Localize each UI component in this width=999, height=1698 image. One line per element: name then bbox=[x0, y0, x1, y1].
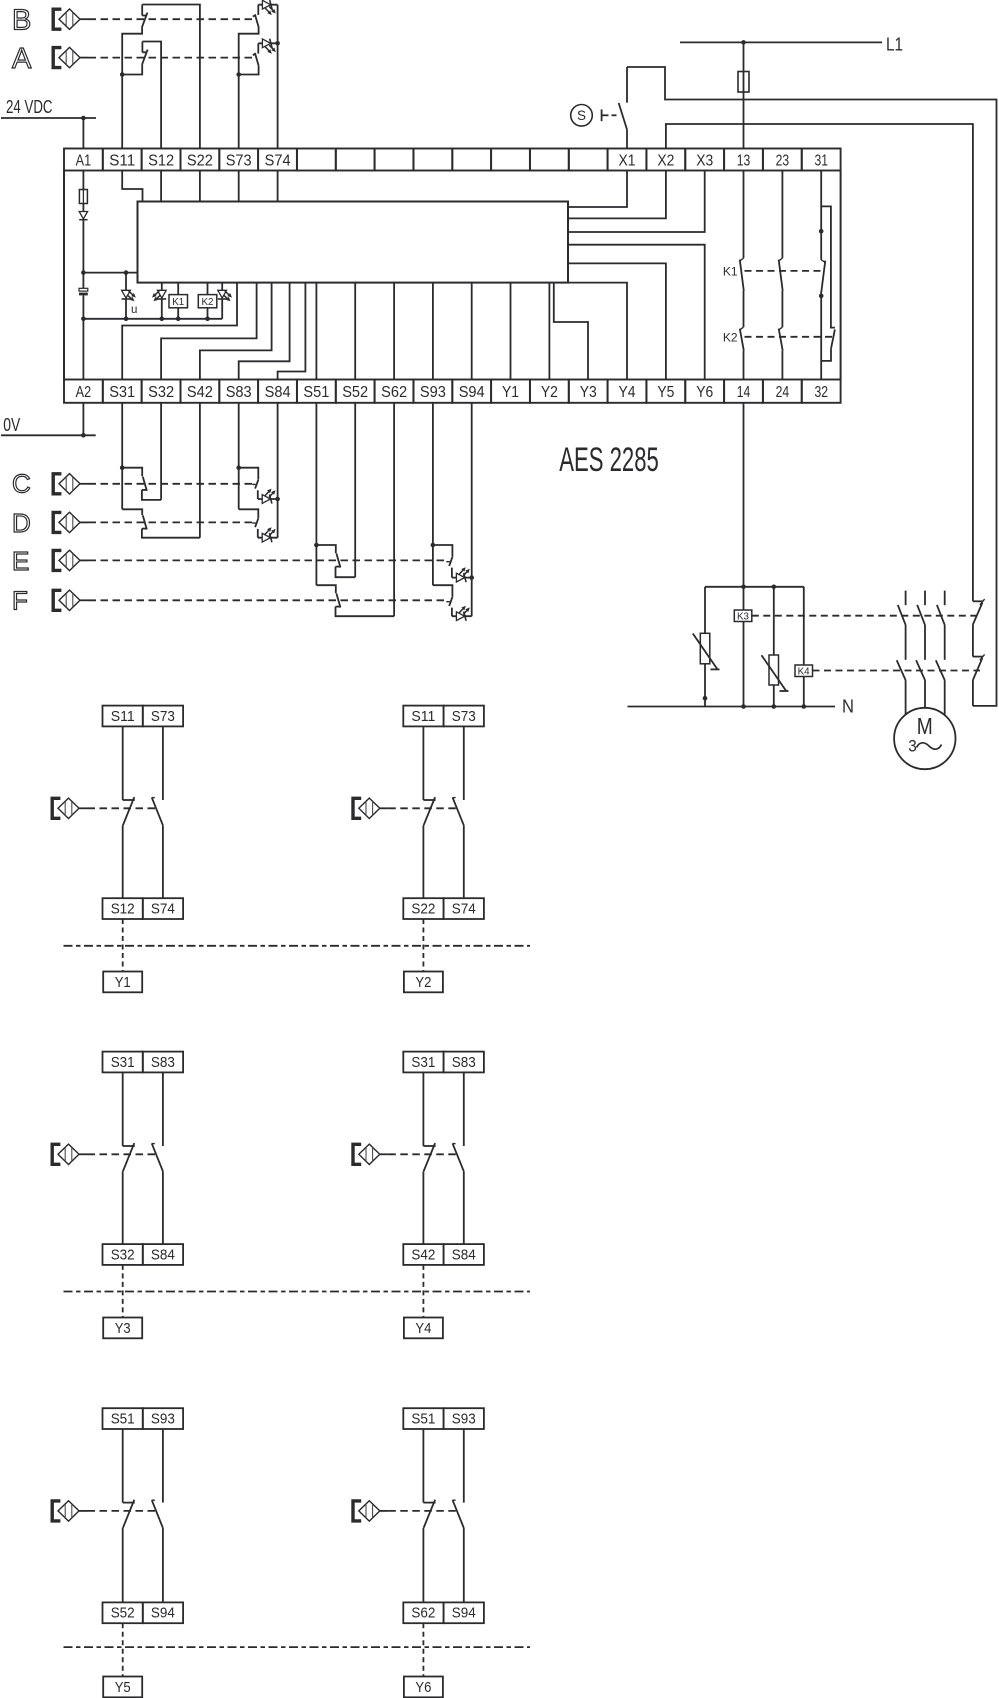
node S84-C bbox=[275, 497, 280, 502]
contact E1 (NC) bbox=[316, 545, 341, 568]
node S74 junction bbox=[275, 41, 280, 46]
section divider 3 (dash-dot) bbox=[64, 1646, 531, 1648]
terminal pair S51/S93 (Y6) bbox=[403, 1408, 484, 1429]
svg-text:S51: S51 bbox=[303, 384, 329, 401]
wire 0V rail bbox=[1, 434, 96, 436]
node 31 upper bbox=[819, 229, 824, 234]
contact left NC (Y3) bbox=[123, 1143, 135, 1171]
svg-text:S73: S73 bbox=[151, 708, 175, 725]
mechanical link F (dashed) bbox=[89, 599, 449, 601]
proximity sensor (Y3) bbox=[52, 1144, 87, 1164]
svg-text:S93: S93 bbox=[452, 1411, 476, 1428]
terminal Y2 bbox=[541, 384, 558, 401]
svg-text:24 VDC: 24 VDC bbox=[6, 96, 53, 117]
mechanical link D (dashed) bbox=[89, 521, 253, 523]
wire D1 to S42 bbox=[142, 529, 200, 538]
wire S83 down bbox=[238, 403, 240, 510]
wire S31 down (Y4) bbox=[422, 1072, 424, 1146]
wire B LED to S74 bbox=[258, 4, 277, 6]
terminal S62 bbox=[381, 384, 407, 401]
svg-text:A: A bbox=[12, 43, 32, 75]
svg-text:S22: S22 bbox=[411, 901, 435, 918]
node N-K4 bbox=[802, 704, 807, 709]
svg-text:S11: S11 bbox=[111, 708, 135, 725]
svg-text:S74: S74 bbox=[265, 152, 291, 169]
contact E2 (NO) bbox=[433, 545, 453, 566]
wire phase L2 mid bbox=[924, 625, 926, 660]
internal bus lower bbox=[83, 318, 222, 320]
sensor label A bbox=[12, 43, 32, 75]
terminal S32 bbox=[148, 384, 174, 401]
wire to S62 (Y6) bbox=[422, 1528, 424, 1603]
svg-text:S73: S73 bbox=[226, 152, 252, 169]
svg-text:S31: S31 bbox=[411, 1054, 435, 1071]
proximity sensor (Y2) bbox=[353, 798, 388, 818]
pushbutton S circle bbox=[571, 105, 593, 127]
wire S11 to logic bbox=[122, 171, 142, 202]
wire logic to S94 bbox=[471, 283, 473, 380]
wire A1 bottom to S11 bbox=[122, 64, 142, 74]
wire S84 down bbox=[277, 403, 279, 538]
wire X3 to logic bbox=[568, 171, 705, 233]
terminal 14 bbox=[737, 384, 751, 401]
proximity sensor (Y1) bbox=[52, 798, 87, 818]
wire S31 down (Y3) bbox=[122, 1072, 124, 1146]
contact left NC (Y4) bbox=[423, 1143, 435, 1171]
wire to S84 (Y3) bbox=[162, 1171, 164, 1244]
svg-text:23: 23 bbox=[776, 152, 790, 169]
node bus2-LED2 bbox=[160, 317, 165, 322]
wire S73 down (Y1) bbox=[162, 726, 164, 800]
terminal pair S42/S84 (Y4) bbox=[403, 1244, 484, 1265]
terminal 23 bbox=[776, 152, 790, 169]
wire Y2 dashed drop bbox=[422, 919, 424, 972]
svg-text:K2: K2 bbox=[723, 330, 738, 344]
svg-text:F: F bbox=[12, 586, 28, 616]
wire E1 to S52 bbox=[336, 567, 356, 578]
wire to S32 (Y3) bbox=[122, 1171, 124, 1244]
terminal S73 bbox=[226, 152, 252, 169]
contact left NC (Y5) bbox=[123, 1500, 135, 1528]
contact right NO (Y2) bbox=[452, 798, 463, 826]
wire S62 down bbox=[393, 403, 395, 616]
contact right NO (Y4) bbox=[452, 1144, 463, 1172]
svg-text:K2: K2 bbox=[202, 296, 214, 308]
svg-text:Y2: Y2 bbox=[415, 974, 431, 991]
svg-text:Y3: Y3 bbox=[580, 384, 597, 401]
terminal pair S52/S94 (Y5) bbox=[103, 1602, 184, 1623]
terminal S84 bbox=[265, 384, 291, 401]
svg-text:Y6: Y6 bbox=[415, 1679, 431, 1696]
wire S11 down (Y2) bbox=[422, 726, 424, 800]
suppressor bus bbox=[705, 586, 804, 588]
LED 3 bbox=[218, 290, 232, 301]
proximity sensor A bbox=[53, 47, 88, 67]
node S51 junction bbox=[314, 543, 319, 548]
LED C bbox=[262, 489, 275, 504]
contact left NC (Y6) bbox=[423, 1500, 435, 1528]
svg-text:S94: S94 bbox=[459, 384, 485, 401]
contact K2b bbox=[779, 327, 783, 350]
mechanical link (Y5) dashed bbox=[88, 1510, 157, 1512]
sensor label F bbox=[12, 586, 28, 616]
terminal 31 bbox=[814, 152, 828, 169]
wire logic to Y1 bbox=[510, 283, 512, 380]
svg-text:N: N bbox=[842, 696, 854, 717]
svg-text:S11: S11 bbox=[411, 708, 435, 725]
wire diode-cap bbox=[82, 220, 84, 289]
svg-text:S62: S62 bbox=[381, 384, 407, 401]
wire S94 down bbox=[471, 403, 473, 616]
svg-text:S32: S32 bbox=[111, 1246, 135, 1263]
internal bus upper bbox=[83, 272, 137, 274]
label u bbox=[131, 304, 137, 316]
wire A top to S12 bbox=[142, 42, 161, 149]
wire logic to S62 bbox=[393, 283, 395, 380]
mechanical link (Y6) dashed bbox=[388, 1510, 457, 1512]
proximity sensor C bbox=[53, 474, 88, 494]
svg-text:Y5: Y5 bbox=[657, 384, 674, 401]
output box Y4 bbox=[404, 1318, 443, 1339]
svg-text:32: 32 bbox=[814, 384, 828, 401]
contact C2 (NO) bbox=[239, 468, 259, 489]
svg-text:24: 24 bbox=[776, 384, 790, 401]
node A1 bus2 bbox=[81, 317, 86, 322]
wire logic to S31 bbox=[122, 283, 237, 380]
svg-text:S84: S84 bbox=[265, 384, 291, 401]
wire to S52 (Y5) bbox=[122, 1528, 124, 1603]
LED 3 wire bbox=[221, 283, 223, 319]
contact A2 (NO) bbox=[253, 43, 259, 65]
fuse F2 bbox=[738, 42, 749, 148]
wire 13 down bbox=[743, 171, 745, 259]
node bus2-K1 bbox=[176, 317, 181, 322]
wire Y3 dashed drop bbox=[122, 1265, 124, 1318]
terminal 32 bbox=[814, 384, 828, 401]
terminal A1 bbox=[76, 152, 92, 169]
LED 2 bbox=[152, 290, 166, 301]
wire to S84 (Y4) bbox=[463, 1171, 465, 1244]
contact C1 (NC) bbox=[122, 468, 147, 491]
terminal S31 bbox=[109, 384, 135, 401]
pushbutton actuator bbox=[602, 109, 617, 121]
wire logic to Y3 bbox=[554, 283, 588, 380]
contact F2 (NO) bbox=[433, 585, 453, 606]
contact left NC (Y2) bbox=[423, 797, 435, 825]
node S83 junction bbox=[236, 465, 241, 470]
wire B top to S22 bbox=[142, 5, 200, 149]
wire Y6 dashed drop bbox=[422, 1623, 424, 1676]
wire F1 to S62 bbox=[336, 607, 395, 617]
proximity sensor F bbox=[53, 590, 88, 610]
wire to 24 bbox=[781, 351, 783, 380]
proximity sensor (Y4) bbox=[353, 1144, 388, 1164]
label 0V bbox=[3, 414, 20, 435]
terminal S93 bbox=[420, 384, 446, 401]
svg-text:K1: K1 bbox=[172, 296, 184, 308]
wire S93 down (Y6) bbox=[463, 1429, 465, 1503]
terminal Y1 bbox=[502, 384, 519, 401]
svg-text:S83: S83 bbox=[151, 1054, 175, 1071]
terminal A2 bbox=[76, 384, 92, 401]
sensor label B bbox=[12, 5, 31, 37]
svg-text:K1: K1 bbox=[723, 265, 738, 279]
feedback loop outer bbox=[627, 67, 997, 706]
svg-text:14: 14 bbox=[737, 384, 751, 401]
wire B2 to S73 bbox=[239, 27, 259, 149]
output box Y6 bbox=[404, 1677, 443, 1698]
node bus2-K2 bbox=[205, 317, 210, 322]
terminal S42 bbox=[187, 384, 213, 401]
terminal 13 bbox=[737, 152, 751, 169]
node S94-E bbox=[469, 575, 474, 580]
wire A2 drop bbox=[82, 403, 84, 436]
bypass bracket 31 bbox=[821, 206, 835, 327]
wire D2 to LED bbox=[257, 529, 259, 538]
contact F1 (NC) bbox=[316, 585, 341, 607]
node bus2-LEDu bbox=[124, 317, 129, 322]
wire logic to S84 bbox=[278, 283, 306, 380]
svg-text:D: D bbox=[12, 508, 31, 538]
relay coil K2 bbox=[198, 283, 217, 319]
wire S31 down bbox=[121, 403, 123, 510]
svg-text:Y1: Y1 bbox=[502, 384, 519, 401]
wire phase L1 to motor bbox=[905, 680, 907, 715]
terminal X1 bbox=[619, 152, 636, 169]
svg-text:E: E bbox=[12, 546, 29, 576]
wire C2 to LED bbox=[257, 490, 259, 499]
terminal Y6 bbox=[696, 384, 713, 401]
varistor R2 bbox=[762, 587, 789, 707]
node varistor R1 bbox=[703, 696, 708, 701]
wire S74 to logic bbox=[277, 171, 279, 202]
wire Y4 dashed drop bbox=[422, 1265, 424, 1318]
node S93 junction bbox=[431, 543, 436, 548]
svg-text:S42: S42 bbox=[187, 384, 213, 401]
terminal S12 bbox=[148, 152, 174, 169]
node N-K3 bbox=[741, 704, 746, 709]
svg-text:S74: S74 bbox=[452, 901, 476, 918]
svg-text:X2: X2 bbox=[657, 152, 674, 169]
svg-text:A1: A1 bbox=[76, 152, 92, 169]
contact A1 (NC) bbox=[142, 42, 148, 65]
node S31 junction bbox=[120, 465, 125, 470]
terminal Y4 bbox=[619, 384, 636, 401]
svg-text:S31: S31 bbox=[109, 384, 135, 401]
wire Y1 dashed drop bbox=[122, 919, 124, 972]
contact B2 (NO) bbox=[253, 5, 259, 27]
terminal Y3 bbox=[580, 384, 597, 401]
svg-text:M: M bbox=[917, 713, 933, 739]
contactor coil K4 bbox=[795, 587, 813, 707]
wire A1 drop bbox=[82, 118, 84, 149]
svg-text:S93: S93 bbox=[151, 1411, 175, 1428]
LED F bbox=[456, 606, 469, 621]
wire phase L2 to motor bbox=[924, 680, 926, 708]
label 24 VDC bbox=[6, 96, 53, 117]
contact K2a bbox=[740, 327, 744, 350]
terminal pair S62/S94 (Y6) bbox=[403, 1602, 484, 1623]
sensor label D bbox=[12, 508, 31, 538]
svg-text:31: 31 bbox=[814, 152, 828, 169]
svg-text:Y5: Y5 bbox=[115, 1679, 131, 1696]
LED D bbox=[262, 527, 275, 542]
svg-text:S42: S42 bbox=[411, 1246, 435, 1263]
mechanical link (Y3) dashed bbox=[88, 1153, 157, 1155]
svg-text:S73: S73 bbox=[452, 708, 476, 725]
terminal pair S11/S73 (Y2) bbox=[403, 706, 484, 727]
wire to S22 (Y2) bbox=[422, 825, 424, 898]
wire logic to S42 bbox=[200, 283, 272, 380]
terminal pair S22/S74 (Y2) bbox=[403, 898, 484, 919]
wire to S94 (Y6) bbox=[463, 1528, 465, 1603]
wire S74 down bbox=[277, 5, 279, 149]
mechanical link (Y4) dashed bbox=[388, 1153, 457, 1155]
svg-text:X1: X1 bbox=[619, 152, 636, 169]
output box Y5 bbox=[103, 1677, 142, 1698]
terminal pair S32/S84 (Y3) bbox=[103, 1244, 184, 1265]
wire E2 to LED bbox=[451, 568, 453, 578]
wire L1 bbox=[680, 41, 882, 43]
svg-text:K4: K4 bbox=[798, 666, 810, 677]
svg-text:S51: S51 bbox=[411, 1411, 435, 1428]
wire phase L3 to motor bbox=[944, 680, 946, 715]
wire fuse-diode bbox=[82, 204, 84, 212]
proximity sensor (Y6) bbox=[353, 1501, 388, 1521]
node N-R2 bbox=[772, 704, 777, 709]
terminal pair S51/S93 (Y5) bbox=[103, 1408, 184, 1429]
wire A1 internal bbox=[82, 171, 84, 190]
wire 23-24 mid bbox=[781, 291, 783, 327]
bracket to 32 bbox=[821, 349, 831, 361]
wire to 14 bbox=[743, 351, 745, 380]
mechanical link E (dashed) bbox=[89, 559, 449, 561]
svg-text:AES 2285: AES 2285 bbox=[559, 441, 659, 479]
wire S51 down (Y6) bbox=[422, 1429, 424, 1503]
svg-text:Y4: Y4 bbox=[415, 1320, 431, 1337]
svg-text:S11: S11 bbox=[109, 152, 135, 169]
svg-text:S74: S74 bbox=[151, 901, 175, 918]
wire S93 down bbox=[432, 403, 434, 585]
terminal S74 bbox=[265, 152, 291, 169]
svg-text:13: 13 bbox=[737, 152, 751, 169]
wire S51 down (Y5) bbox=[122, 1429, 124, 1503]
mech link K2 (dashed) bbox=[745, 336, 833, 338]
wire phase L1 mid bbox=[905, 625, 907, 660]
wire to S74 (Y2) bbox=[463, 825, 465, 898]
wire logic to Y6 bbox=[568, 245, 705, 380]
mechanical link (Y1) dashed bbox=[88, 807, 157, 809]
svg-text:C: C bbox=[12, 468, 31, 498]
mechanical link A (dashed) bbox=[89, 57, 253, 59]
terminal X3 bbox=[696, 152, 713, 169]
wire 23 down bbox=[781, 171, 783, 259]
wire S51 down bbox=[315, 403, 317, 585]
wire X1 to logic bbox=[568, 171, 627, 208]
wire to 32 bbox=[820, 296, 822, 380]
contact right NO (Y6) bbox=[452, 1500, 463, 1528]
terminal pair S11/S73 (Y1) bbox=[103, 706, 184, 727]
wire logic to S93 bbox=[432, 283, 434, 380]
svg-text:S93: S93 bbox=[420, 384, 446, 401]
wire logic to S51 bbox=[315, 283, 317, 380]
sensor label C bbox=[12, 468, 31, 498]
node S73 junction bbox=[236, 72, 241, 77]
wire S22 to logic bbox=[199, 171, 201, 202]
wire S32 down bbox=[160, 403, 162, 500]
varistor R1 bbox=[693, 587, 720, 707]
wire to S42 (Y4) bbox=[422, 1171, 424, 1244]
terminal S11 bbox=[109, 152, 135, 169]
section divider 2 (dash-dot) bbox=[64, 1291, 531, 1293]
wire LED F to S94 bbox=[452, 615, 472, 617]
svg-text:L1: L1 bbox=[886, 33, 903, 54]
svg-text:A2: A2 bbox=[76, 384, 92, 401]
wire A2 to S73 bbox=[239, 66, 259, 75]
svg-text:K3: K3 bbox=[737, 611, 749, 622]
mechanical link C (dashed) bbox=[89, 483, 253, 485]
contact right NO (Y1) bbox=[152, 798, 163, 826]
wire logic to S52 bbox=[354, 283, 356, 380]
contact B1 (NC) bbox=[142, 5, 148, 28]
node A1 bus1 bbox=[81, 270, 86, 275]
wire logic to Y2 bbox=[548, 283, 550, 380]
wire B1 bottom to S11 bbox=[122, 27, 142, 148]
terminal pair S31/S83 (Y4) bbox=[403, 1052, 484, 1073]
wire aux bottom bbox=[972, 680, 974, 706]
node L1 bbox=[741, 40, 746, 45]
svg-text:Y1: Y1 bbox=[115, 974, 131, 991]
wire A LED to S74 bbox=[258, 42, 277, 44]
contact K2c (NC) bbox=[831, 329, 835, 348]
svg-text:0V: 0V bbox=[3, 414, 20, 435]
wire 14 down bbox=[743, 403, 745, 610]
contact left NC (Y1) bbox=[123, 797, 135, 825]
contact K4 main L1 bbox=[897, 660, 906, 680]
svg-text:3: 3 bbox=[908, 737, 917, 756]
label K1 bbox=[723, 265, 738, 279]
node S11 junction bbox=[120, 72, 125, 77]
svg-text:S83: S83 bbox=[226, 384, 252, 401]
contact right NO (Y5) bbox=[152, 1500, 163, 1528]
feedback loop X2 bbox=[666, 124, 973, 601]
svg-text:S52: S52 bbox=[111, 1605, 135, 1622]
mechanical link (Y2) dashed bbox=[388, 807, 457, 809]
terminal 24 bbox=[776, 384, 790, 401]
LED E bbox=[456, 567, 469, 582]
mech link K3 (dashed) bbox=[752, 615, 980, 617]
contact K4 main L2 bbox=[916, 660, 925, 680]
wire logic to Y4 bbox=[568, 283, 627, 380]
wire C1 to S32 bbox=[142, 490, 161, 500]
svg-text:S84: S84 bbox=[452, 1246, 476, 1263]
contact K4 main L3 bbox=[936, 660, 945, 680]
wire F2 to LED bbox=[451, 608, 453, 617]
contact K1a bbox=[740, 258, 744, 291]
LED u bbox=[122, 290, 136, 301]
LED u wire bbox=[125, 273, 127, 319]
contact K3 aux (NC) bbox=[973, 599, 985, 624]
wire S73 to logic bbox=[238, 171, 240, 202]
wire S11 down (Y1) bbox=[122, 726, 124, 800]
wire to S12 (Y1) bbox=[122, 825, 124, 898]
contact D2 (NO) bbox=[239, 509, 259, 527]
wire 24VDC rail bbox=[1, 117, 96, 119]
terminal strip top row bbox=[64, 149, 841, 171]
wire phase L3 mid bbox=[944, 625, 946, 660]
output box Y1 bbox=[103, 972, 142, 993]
fuse F1 bbox=[79, 190, 87, 204]
